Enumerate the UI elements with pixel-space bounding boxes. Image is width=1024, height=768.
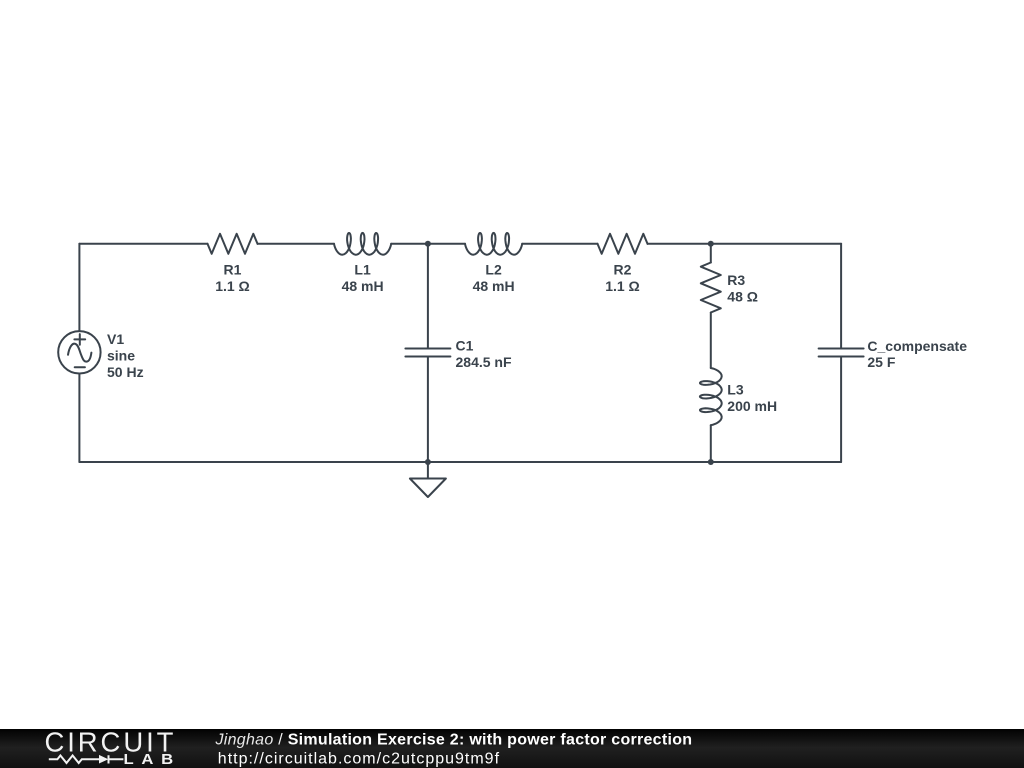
- svg-text:C_compensate: C_compensate: [867, 338, 967, 354]
- wire L1 to L2 through node A: [391, 243, 465, 245]
- svg-text:http://circuitlab.com/c2utcppu: http://circuitlab.com/c2utcppu9tm9f: [218, 750, 500, 767]
- svg-text:50 Hz: 50 Hz: [107, 364, 144, 380]
- svg-text:LAB: LAB: [124, 752, 181, 768]
- junction node B top: [708, 241, 714, 247]
- inductor L2: [465, 233, 522, 255]
- wire C1 to bottom wire: [427, 357, 429, 463]
- wire top-left horizontal: [79, 243, 207, 245]
- svg-text:Jinghao / Simulation Exercise: Jinghao / Simulation Exercise 2: with po…: [215, 731, 693, 748]
- junction node L3 bottom: [708, 459, 714, 465]
- wire right vertical upper (to C_compensate): [840, 244, 842, 349]
- wire left vertical lower (V1 to bottom wire): [78, 374, 80, 463]
- junction node A top: [425, 241, 431, 247]
- wire R1 to L1: [258, 243, 335, 245]
- svg-text:1.1 Ω: 1.1 Ω: [215, 278, 250, 294]
- svg-text:200 mH: 200 mH: [727, 398, 777, 414]
- inductor L3: [700, 368, 722, 425]
- capacitor C_compensate: [819, 349, 864, 357]
- V1 minus sign: [75, 366, 85, 368]
- wire right vertical lower (C_compensate to bottom): [840, 357, 842, 463]
- svg-text:48 Ω: 48 Ω: [727, 289, 758, 305]
- svg-text:R2: R2: [614, 261, 632, 277]
- junction node ground bottom: [425, 459, 431, 465]
- svg-text:R3: R3: [727, 272, 745, 288]
- svg-text:48 mH: 48 mH: [342, 278, 384, 294]
- V1 plus sign: [74, 334, 85, 345]
- svg-text:1.1 Ω: 1.1 Ω: [605, 278, 640, 294]
- wire R2 to top-right corner: [648, 243, 842, 245]
- logo diode triangle: [99, 755, 108, 764]
- svg-text:sine: sine: [107, 347, 135, 363]
- svg-text:L2: L2: [485, 261, 502, 277]
- wire L2 to R2: [522, 243, 597, 245]
- inductor L1: [334, 233, 391, 255]
- ground triangle: [410, 479, 446, 498]
- wire left vertical upper (top wire to V1): [78, 244, 80, 331]
- svg-text:L3: L3: [727, 381, 744, 397]
- svg-text:L1: L1: [354, 261, 371, 277]
- svg-text:284.5 nF: 284.5 nF: [456, 354, 512, 370]
- voltage source V1 circle: [58, 331, 100, 373]
- capacitor C1: [405, 349, 450, 357]
- wire bottom horizontal: [79, 461, 841, 463]
- svg-text:48 mH: 48 mH: [473, 278, 515, 294]
- resistor R1: [208, 234, 258, 254]
- svg-text:25 F: 25 F: [867, 354, 895, 370]
- wire node A down to C1: [427, 244, 429, 349]
- V1 sine glyph: [68, 344, 91, 362]
- wire R3 to L3: [710, 313, 712, 369]
- wire L3 to bottom wire: [710, 425, 712, 462]
- resistor R2: [598, 234, 648, 254]
- svg-text:R1: R1: [224, 261, 242, 277]
- resistor R3: [701, 263, 721, 313]
- logo resistor-diode line: [49, 755, 124, 763]
- footer bar: [0, 729, 1024, 768]
- svg-text:V1: V1: [107, 331, 124, 347]
- ground stem: [427, 462, 429, 479]
- svg-text:C1: C1: [456, 338, 474, 354]
- wire node B down to R3: [710, 244, 712, 263]
